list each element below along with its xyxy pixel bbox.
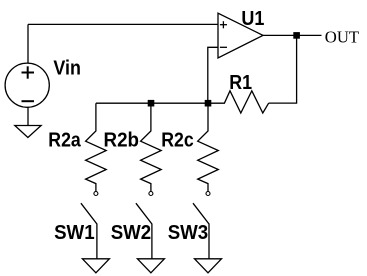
svg-text:SW3: SW3 [168,222,209,244]
svg-text:R2c: R2c [161,129,194,151]
svg-text:R2b: R2b [104,129,140,151]
svg-text:R1: R1 [229,72,252,94]
svg-text:SW1: SW1 [54,222,95,244]
svg-text:U1: U1 [241,8,264,30]
svg-text:R2a: R2a [48,129,81,151]
svg-text:Vin: Vin [53,58,81,80]
svg-text:SW2: SW2 [111,222,152,244]
svg-text:OUT: OUT [325,27,360,46]
